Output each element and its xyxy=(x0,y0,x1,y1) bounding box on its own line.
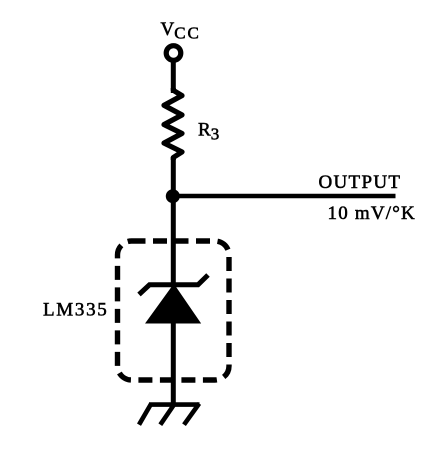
zener diode anode triangle xyxy=(146,285,200,324)
wire diode to ground xyxy=(171,322,176,406)
node junction xyxy=(166,189,180,203)
svg-text:OUTPUT: OUTPUT xyxy=(319,172,402,193)
zener diode cathode bar xyxy=(139,275,208,295)
svg-text:LM335: LM335 xyxy=(43,300,109,321)
svg-text:10 mV/°K: 10 mV/°K xyxy=(328,203,416,224)
resistor R3 xyxy=(164,88,182,160)
wire node to output xyxy=(173,194,396,199)
terminal VCC xyxy=(166,46,181,61)
wire node to diode xyxy=(171,196,176,285)
wire VCC terminal to resistor xyxy=(171,60,176,93)
LM335 package outline (dashed box) xyxy=(118,241,230,380)
wire resistor to node xyxy=(171,157,176,199)
ground xyxy=(139,404,200,425)
